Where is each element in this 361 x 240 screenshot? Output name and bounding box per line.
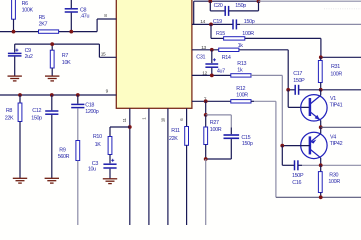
svg-text:150P: 150P	[293, 78, 305, 84]
ground under C3	[103, 178, 117, 180]
wire pin 6 column	[186, 108, 188, 126]
svg-text:10: 10	[160, 117, 165, 122]
svg-text:2K7: 2K7	[39, 22, 48, 28]
svg-text:150p: 150p	[31, 116, 42, 122]
svg-text:6: 6	[179, 118, 184, 121]
wire R15 branch	[210, 24, 212, 38]
svg-text:1k: 1k	[237, 68, 243, 74]
wire pin 10 column	[167, 108, 169, 225]
svg-text:TIP41: TIP41	[330, 102, 343, 108]
svg-text:R31: R31	[331, 64, 340, 70]
wire grey C18 to R9	[77, 108, 79, 140]
wire net B (C9/R7) to pin 15	[15, 43, 100, 45]
wire C15 bottom loop	[206, 158, 232, 160]
wire pin 11 column	[129, 108, 131, 225]
node junction R7/net B	[50, 42, 54, 46]
wire pin 1 column	[148, 108, 150, 225]
wire grey top net continuation	[259, 0, 361, 2]
svg-text:R7: R7	[62, 53, 69, 59]
resistor R13	[231, 74, 251, 77]
node junction R6/net A	[12, 30, 16, 34]
svg-text:10u: 10u	[88, 167, 96, 173]
svg-text:C18: C18	[85, 103, 94, 109]
wire grey R12 net down and bottom	[251, 100, 254, 102]
wire pin 13 net	[192, 49, 219, 51]
wire pin 14 net	[192, 23, 233, 25]
resistor R31	[320, 57, 322, 60]
wire grey collector bottom rail	[302, 164, 361, 166]
svg-text:R30: R30	[329, 173, 338, 179]
node junction R8	[18, 93, 22, 97]
node junction C20 left	[208, 0, 212, 3]
svg-text:15: 15	[101, 52, 106, 58]
node junction pin14/R15	[209, 23, 213, 27]
capacitor C12	[51, 95, 53, 110]
svg-text:12: 12	[202, 70, 207, 76]
resistor R11	[185, 127, 189, 146]
wire collector rail	[321, 89, 361, 91]
node junction pin12/C31	[210, 74, 214, 78]
svg-text:150P: 150P	[292, 173, 304, 179]
wire below R11	[186, 145, 188, 225]
svg-text:R14: R14	[222, 55, 231, 61]
op-amp IC U1 (yellow block, top cropped)	[116, 0, 192, 108]
resistor R7	[50, 50, 54, 68]
resistor R12	[231, 100, 251, 103]
ground under C12	[45, 177, 59, 179]
svg-text:C12: C12	[32, 108, 41, 114]
svg-text:14: 14	[200, 19, 205, 25]
svg-text:100R: 100R	[328, 179, 340, 185]
wire grey pin14 net continuation	[240, 23, 361, 25]
svg-text:1K: 1K	[95, 142, 102, 148]
svg-text:2u2: 2u2	[25, 54, 33, 60]
ground under R7	[45, 75, 59, 77]
capacitor C8	[70, 0, 72, 8]
svg-text:1k: 1k	[238, 43, 244, 49]
resistor R5	[39, 30, 59, 33]
wire V1 base	[287, 90, 289, 108]
wire V1 collector	[320, 90, 322, 96]
svg-text:100R: 100R	[236, 93, 248, 99]
svg-text:1200p: 1200p	[85, 109, 99, 115]
wire grey C15 top loop	[206, 114, 232, 116]
node junction C18	[76, 93, 80, 97]
svg-text:C31: C31	[196, 55, 205, 61]
svg-text:R8: R8	[6, 108, 13, 114]
resistor R8	[19, 95, 21, 103]
node junction C12	[50, 93, 54, 97]
capacitor C3 (electrolytic)	[109, 155, 111, 164]
wire R15 net to rail	[321, 56, 361, 58]
wire pin 7 net	[192, 100, 231, 102]
svg-text:11: 11	[122, 118, 127, 123]
resistor R15	[224, 37, 245, 40]
svg-text:22K: 22K	[5, 116, 14, 122]
capacitor C16	[294, 160, 296, 170]
wire R27 branch stub	[205, 101, 207, 115]
wire grey below R9	[77, 161, 79, 226]
wire net pin 9	[0, 94, 116, 96]
svg-text:R15: R15	[216, 31, 225, 37]
svg-text:C19: C19	[213, 19, 222, 25]
svg-text:100R: 100R	[242, 31, 254, 37]
node junction C8/net A	[69, 30, 73, 34]
svg-text:100R: 100R	[210, 127, 222, 133]
capacitor C9 (electrolytic)	[14, 44, 16, 52]
node junction R27 bottom	[204, 157, 208, 161]
capacitor C18	[77, 95, 79, 104]
ground under R8	[13, 177, 27, 179]
wire net A to pin 8	[0, 31, 39, 33]
node junction C17 right / V1 collector	[319, 88, 323, 92]
capacitor C31 (electrolytic)	[211, 50, 213, 63]
wire grey below R27	[205, 159, 207, 225]
svg-text:560R: 560R	[58, 154, 70, 160]
wire grey R13 to V4 base	[251, 74, 282, 76]
node junction V4 base	[280, 144, 284, 148]
node junction pin11/R10	[128, 125, 132, 129]
ground under C9	[8, 75, 22, 77]
svg-text:8: 8	[104, 13, 107, 19]
svg-text:150p: 150p	[242, 141, 253, 147]
wire V4 collector	[320, 158, 322, 166]
node junction R31 top	[319, 55, 323, 59]
node junction output	[319, 125, 323, 129]
node junction C20 right	[257, 0, 261, 3]
svg-text:V1: V1	[330, 96, 336, 102]
wire V4 emitter	[320, 127, 322, 133]
svg-text:R10: R10	[93, 134, 102, 140]
wire grey output to right edge	[321, 126, 361, 128]
svg-text:.47u: .47u	[80, 13, 89, 19]
svg-text:22K: 22K	[169, 136, 178, 142]
svg-text:150p: 150p	[244, 19, 255, 25]
svg-text:C16: C16	[292, 180, 301, 186]
wire V4 base	[282, 145, 310, 147]
svg-text:R5: R5	[39, 15, 46, 21]
wire bottom net to right edge	[276, 196, 361, 198]
resistor R10	[108, 137, 112, 155]
node junction R27 top	[204, 113, 208, 117]
svg-text:100R: 100R	[330, 72, 342, 78]
svg-text:V4: V4	[330, 135, 336, 141]
svg-text:R6: R6	[22, 1, 29, 7]
svg-text:4u7: 4u7	[217, 69, 225, 75]
wire C16 branch	[281, 146, 283, 166]
svg-text:100K: 100K	[22, 8, 34, 14]
capacitor C20 branch	[209, 1, 211, 11]
svg-text:1: 1	[141, 117, 146, 120]
node junction pin7/R27	[204, 99, 208, 103]
node junction R30 bottom	[319, 195, 323, 199]
capacitor C15	[230, 128, 232, 135]
svg-text:C17: C17	[293, 71, 302, 77]
resistor R9	[76, 141, 80, 161]
capacitor C19	[232, 19, 234, 29]
svg-text:13: 13	[201, 45, 206, 51]
svg-text:R11: R11	[171, 128, 180, 134]
node junction C17 left / R14 net	[286, 88, 290, 92]
transistor V4 TIP42	[301, 132, 327, 158]
node junction pin13/C31	[210, 48, 214, 52]
wire C16 to collector node	[298, 164, 302, 166]
node junction V4 collector / R30 top	[319, 163, 323, 167]
wire R10 to pin11 node	[110, 126, 130, 128]
svg-text:R12: R12	[236, 86, 245, 92]
capacitor C17	[288, 89, 295, 91]
resistor R27	[205, 115, 207, 127]
wire V1 emitter	[320, 120, 322, 127]
svg-text:10K: 10K	[62, 60, 71, 66]
resistor R30	[320, 165, 322, 171]
resistor R14	[219, 48, 239, 51]
resistor R6	[12, 0, 16, 19]
wire R7 stubs	[51, 44, 53, 50]
svg-text:9: 9	[106, 89, 109, 95]
svg-text:R9: R9	[59, 148, 66, 154]
faint dotted line top right	[324, 8, 361, 10]
svg-text:C20: C20	[214, 3, 223, 9]
svg-text:R27: R27	[210, 120, 219, 126]
transistor V1 TIP41	[301, 95, 327, 121]
wire top feedback net	[194, 0, 259, 2]
svg-text:R13: R13	[237, 61, 246, 67]
svg-text:150p: 150p	[235, 3, 246, 9]
wire R6 bottom stub	[13, 19, 15, 31]
wire pin 12 net	[192, 74, 231, 76]
svg-text:TIP42: TIP42	[330, 141, 343, 147]
